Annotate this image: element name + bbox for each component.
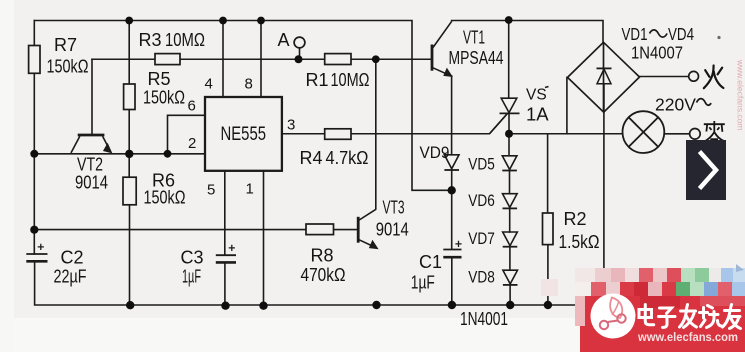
svg-text:1A: 1A xyxy=(526,104,549,125)
diode VD5 xyxy=(502,156,517,171)
node A terminal xyxy=(294,37,305,48)
svg-text:NE555: NE555 xyxy=(221,123,267,145)
resistor R6 xyxy=(123,177,136,205)
lamp xyxy=(623,111,665,153)
wire bridge bottom leg xyxy=(603,112,605,305)
wire live terminal xyxy=(640,76,689,78)
diode VD9 xyxy=(444,155,459,170)
svg-text:470kΩ: 470kΩ xyxy=(301,265,346,285)
live terminal circle xyxy=(689,71,699,81)
wire left vertical xyxy=(33,21,35,255)
transistor VT3 xyxy=(358,209,377,248)
resistor R1 xyxy=(325,54,351,65)
svg-text:R1: R1 xyxy=(306,70,329,90)
thyristor VS xyxy=(490,98,520,134)
wire top rail left xyxy=(34,21,451,191)
wire lamp row xyxy=(509,133,623,135)
wire VS column xyxy=(509,20,510,305)
junction node dots xyxy=(125,17,133,25)
watermark logo xyxy=(591,294,636,339)
watermark speck left xyxy=(541,279,558,296)
watermark mosaic row 2 xyxy=(575,282,745,296)
svg-text:www.elecfans.com: www.elecfans.com xyxy=(637,332,738,344)
bridge rectifier VD1~VD4 xyxy=(568,42,640,112)
svg-text:VT1: VT1 xyxy=(463,28,485,48)
svg-text:6: 6 xyxy=(188,98,196,115)
svg-text:1: 1 xyxy=(246,181,254,198)
resistor R3 xyxy=(155,54,180,65)
resistor R7 xyxy=(29,46,40,74)
wire pin8 xyxy=(260,21,262,98)
wire R1 to VT1 base xyxy=(351,58,431,60)
diode VD7 xyxy=(503,232,518,247)
label VD1~VD4 xyxy=(622,24,695,44)
wire pin2 rail xyxy=(34,153,205,155)
svg-text:3: 3 xyxy=(287,117,295,134)
label 220V~ xyxy=(655,95,711,115)
wire pin1 xyxy=(263,171,265,306)
wire pin5 / C3 xyxy=(224,171,226,306)
watermark site name 电子发烧友 (drawn white glyphs) xyxy=(639,305,741,329)
svg-text:VD9: VD9 xyxy=(420,143,450,162)
capacitor C2 xyxy=(26,244,47,261)
svg-text:1µF: 1µF xyxy=(182,267,201,287)
diode VD8 xyxy=(503,270,518,285)
svg-text:VS: VS xyxy=(526,87,547,104)
carousel chevron xyxy=(700,152,717,189)
svg-text:C2: C2 xyxy=(61,248,84,268)
label neutral 零 (drawn glyph) xyxy=(704,121,725,147)
svg-text:VT2: VT2 xyxy=(77,155,103,175)
resistor R5 xyxy=(124,84,135,110)
watermark corner tick xyxy=(736,264,744,272)
svg-text:1N4001: 1N4001 xyxy=(460,309,508,329)
svg-text:4.7kΩ: 4.7kΩ xyxy=(326,148,369,168)
wire R3 row xyxy=(92,58,325,60)
watermark mosaic row 1 xyxy=(575,268,745,282)
transistor VT2 xyxy=(71,135,112,153)
svg-text:1.5kΩ: 1.5kΩ xyxy=(559,232,600,252)
watermark red banner xyxy=(580,296,745,352)
svg-text:9014: 9014 xyxy=(376,220,409,240)
svg-text:VD7: VD7 xyxy=(468,229,495,248)
neutral terminal circle xyxy=(690,129,701,140)
wire R2 branch xyxy=(547,134,549,305)
glyph dian xyxy=(639,305,654,325)
IC U1 NE555 xyxy=(205,97,282,171)
svg-text:9014: 9014 xyxy=(75,173,108,193)
scan speck xyxy=(717,36,720,39)
wire VT1 emitter / VD9 / C1 column xyxy=(451,76,453,305)
svg-text:150kΩ: 150kΩ xyxy=(144,188,186,208)
capacitor C3 xyxy=(216,245,236,263)
wire neutral terminal xyxy=(664,133,689,135)
svg-text:150kΩ: 150kΩ xyxy=(47,57,89,77)
svg-text:220V: 220V xyxy=(655,95,696,115)
svg-text:22µF: 22µF xyxy=(54,267,87,287)
glyph shao xyxy=(700,306,722,328)
svg-text:150kΩ: 150kΩ xyxy=(143,88,185,108)
svg-text:R4: R4 xyxy=(300,148,323,168)
carousel next box xyxy=(686,140,726,200)
resistor R2 xyxy=(543,213,554,245)
wire top rail right xyxy=(452,21,603,43)
glyph zi xyxy=(659,308,676,327)
svg-text:10MΩ: 10MΩ xyxy=(331,70,370,90)
wire R5-R6 column xyxy=(128,21,130,306)
wire VT3 collector riser xyxy=(375,59,377,209)
svg-text:1N4007: 1N4007 xyxy=(631,43,683,63)
svg-text:8: 8 xyxy=(245,76,253,93)
svg-text:1µF: 1µF xyxy=(411,273,435,293)
svg-text:2: 2 xyxy=(188,135,196,152)
resistor R4 xyxy=(325,129,351,140)
svg-text:R2: R2 xyxy=(564,209,587,229)
wire R8 rail xyxy=(34,229,357,231)
wire pin3 / R4 row xyxy=(282,114,507,134)
diode VD6 xyxy=(503,194,518,209)
label live 火 (drawn glyph) xyxy=(704,66,724,89)
svg-text:VD6: VD6 xyxy=(468,191,495,210)
resistor R8 xyxy=(306,224,334,235)
svg-text:R3: R3 xyxy=(139,30,162,50)
svg-text:5: 5 xyxy=(207,182,215,199)
svg-text:10MΩ: 10MΩ xyxy=(165,30,205,50)
svg-text:R7: R7 xyxy=(54,35,77,55)
svg-text:VD8: VD8 xyxy=(468,268,495,287)
glyph you xyxy=(723,305,741,329)
wire bridge left leg xyxy=(566,77,568,133)
glyph fa xyxy=(680,305,697,328)
svg-text:C1: C1 xyxy=(419,252,442,272)
svg-text:www.elecfans.com: www.elecfans.com xyxy=(736,59,745,130)
wire VT2 base xyxy=(91,59,93,134)
transistor VT1 xyxy=(432,21,452,76)
svg-text:MPSA44: MPSA44 xyxy=(449,48,504,68)
wire bottom rail xyxy=(35,262,605,306)
svg-text:R5: R5 xyxy=(148,69,171,89)
svg-text:R8: R8 xyxy=(311,246,334,266)
wire pin4 xyxy=(222,21,224,98)
svg-text:VD5: VD5 xyxy=(468,155,495,174)
svg-text:C3: C3 xyxy=(181,248,204,268)
svg-text:4: 4 xyxy=(205,76,213,93)
node A stem xyxy=(299,48,301,59)
svg-text:A: A xyxy=(278,30,290,50)
svg-text:VD1: VD1 xyxy=(622,24,648,44)
capacitor C1 xyxy=(443,241,461,257)
svg-text:VT3: VT3 xyxy=(383,198,405,218)
svg-text:VD4: VD4 xyxy=(668,24,694,44)
wire pin6 xyxy=(168,115,206,154)
